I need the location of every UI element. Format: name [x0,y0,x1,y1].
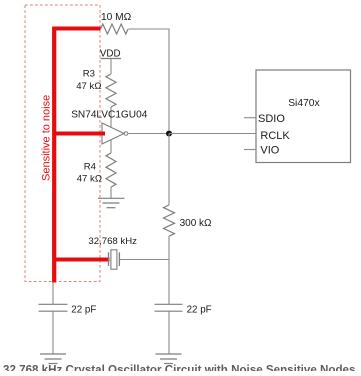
wire: red net branch to crystal [53,258,110,262]
wire: red net top branch to 10 MΩ [53,27,101,31]
IC U2 Si470x [256,70,351,163]
wire: R3 to R4 bias rail (passes behind inverter) [110,107,112,153]
svg-text:SN74LVC1GU04: SN74LVC1GU04 [71,109,148,120]
svg-text:RCLK: RCLK [260,130,290,142]
svg-text:300 kΩ: 300 kΩ [180,218,212,229]
wire: C2 to ground [168,311,170,354]
svg-text:R4: R4 [84,161,97,172]
svg-text:10 MΩ: 10 MΩ [101,12,132,23]
svg-text:47 kΩ: 47 kΩ [77,173,102,184]
inverter U1 SN74LVC1GU04 [102,123,128,144]
svg-text:VDD: VDD [100,49,121,60]
resistor R3 [106,74,116,107]
wire: R4 to ground [110,187,112,198]
ground (below C1) [40,354,66,364]
svg-text:R3: R3 [83,69,95,80]
wire: crystal node down to C2 [168,260,170,305]
pin stub SDIO [244,117,256,119]
svg-text:32.768 kHz Crystal Oscillator: 32.768 kHz Crystal Oscillator Circuit wi… [3,364,355,371]
svg-text:Si470x: Si470x [288,98,320,109]
ground (below C2) [156,354,182,364]
svg-text:22 pF: 22 pF [187,304,212,315]
wire: VDD to R3 [110,59,112,75]
wire: red net vertical trunk [52,27,56,283]
resistor R4 [106,153,116,187]
wire: junction to RCLK pin [169,133,256,135]
resistor R1 10 MΩ (feedback) [101,24,129,34]
svg-text:32,768 kHz: 32,768 kHz [88,236,137,247]
noise-sensitive boundary (red dashed box) [25,5,100,282]
wire: inverter output to junction [128,133,169,135]
svg-text:47 kΩ: 47 kΩ [76,81,101,92]
capacitor C2 22 pF [155,304,183,311]
capacitor C1 22 pF [39,304,68,311]
crystal Y1 32,768 kHz [109,250,120,269]
pin stub VIO [244,149,256,151]
wire: junction down to R2 [168,134,170,206]
power flag VDD [100,49,121,60]
node A: inverter output / RCLK junction [166,131,172,137]
resistor R2 300 kΩ [164,205,175,236]
svg-text:VIO: VIO [260,145,279,157]
wire: red net to C1 [52,283,54,305]
wire: crystal to right rail [119,259,169,261]
wire: red net branch to inverter input [53,132,106,136]
wire: C1 to ground [52,311,54,354]
svg-text:Sensitive to noise: Sensitive to noise [40,95,52,181]
svg-text:SDIO: SDIO [258,113,285,125]
svg-text:22 pF: 22 pF [71,304,96,315]
ground (below R4) [98,198,125,207]
wire: R2 to crystal node [168,236,170,260]
wire: 10 MΩ output to right rail [129,29,170,130]
